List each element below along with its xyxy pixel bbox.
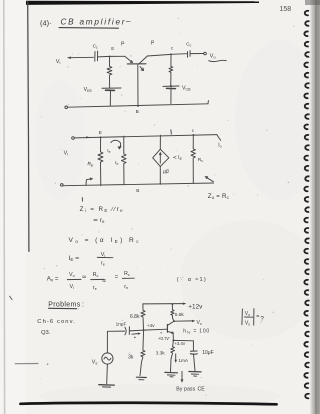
- resistor 5.6k (collector): [171, 304, 174, 321]
- transistor Q2 collector diagonal: [168, 321, 175, 325]
- svg-text:3.3k: 3.3k: [156, 351, 166, 356]
- svg-text:?: ?: [260, 315, 264, 322]
- ground rail left terminal circle: [65, 106, 68, 109]
- arrowhead on top rail: [86, 136, 89, 138]
- svg-text:1nμF: 1nμF: [116, 322, 127, 327]
- input capacitor curved plate: [125, 327, 126, 335]
- tick above Zi text: [81, 198, 83, 202]
- ground rail circuit 1: [68, 104, 208, 107]
- wire node E to emitter: [110, 55, 125, 57]
- svg-text:6.8k: 6.8k: [130, 314, 140, 320]
- battery VCB short plate: [167, 87, 176, 89]
- svg-text:(∵ α ≈1): (∵ α ≈1): [177, 277, 206, 283]
- svg-text:1mA: 1mA: [178, 358, 189, 363]
- Zi arrow: [86, 179, 91, 186]
- svg-text:μβ: μβ: [162, 169, 169, 175]
- svg-text:Q3.: Q3.: [41, 330, 51, 336]
- controlled source inner up arrow: [159, 154, 161, 164]
- svg-text:+3.4v: +3.4v: [174, 341, 186, 346]
- svg-text:≃: ≃: [82, 274, 87, 280]
- emitter node dot: [172, 339, 174, 341]
- source wire to ground: [106, 364, 109, 384]
- controlled source diamond: [153, 149, 169, 166]
- svg-text:+12v: +12v: [188, 304, 203, 311]
- svg-text:E: E: [111, 46, 114, 51]
- supply rail with arrowhead: [143, 303, 183, 305]
- transistor Q1 collector diagonal: [139, 56, 147, 64]
- ground (3k): [136, 376, 146, 378]
- equation Av = Vo/Vi = Rc/re a = Rc/re: [47, 271, 130, 291]
- svg-text:Vi: Vi: [56, 59, 61, 65]
- battery VEE long plate: [102, 87, 121, 89]
- Zo arrow: [206, 177, 213, 182]
- svg-text:IE =: IE =: [69, 255, 80, 262]
- svg-text:CE: CE: [198, 387, 206, 393]
- bypass capacitor bottom plate: [190, 353, 197, 355]
- wire node c to capacitor: [171, 53, 187, 56]
- node E dot: [109, 56, 111, 58]
- output terminal circle: [204, 52, 207, 55]
- top rail E: [74, 135, 217, 138]
- svg-text:+4v: +4v: [147, 323, 155, 329]
- paper speckle: [39, 18, 294, 396]
- title "(4). CB amplifier -": [40, 17, 131, 28]
- svg-text:E: E: [99, 130, 102, 136]
- svg-text:P: P: [151, 41, 155, 47]
- battery VEE short plate: [106, 89, 115, 91]
- base wire to transistor: [144, 328, 168, 331]
- battery VCB junction blob: [170, 85, 172, 87]
- bottom rail B: [63, 183, 213, 186]
- Vo underline flourish: [209, 60, 227, 61]
- spiral binding hooks: [304, 11, 309, 399]
- emitter wire to bypass capacitor: [173, 339, 193, 341]
- left margin rule: [28, 2, 29, 251]
- stray margin dash: [15, 363, 38, 365]
- collector node dot: [173, 320, 175, 322]
- bottom rail left terminal circle: [61, 184, 64, 187]
- ground rail right tick: [207, 101, 209, 104]
- transistor Q1 arrow mark under bar: [140, 67, 144, 71]
- curved arrow Ie: [111, 140, 121, 148]
- top page-edge black bar: [26, 1, 259, 5]
- controlled source stem top: [159, 135, 161, 149]
- svg-text:Av =: Av =: [47, 276, 59, 283]
- input wire with left arrowhead: [71, 56, 94, 58]
- svg-text:10μF: 10μF: [202, 350, 214, 356]
- current arrow 1mA: [175, 354, 177, 360]
- resistor 3k (lower bias): [140, 330, 145, 376]
- svg-text:158: 158: [280, 6, 292, 13]
- svg-text:–: –: [126, 17, 131, 26]
- stray tick above rail: [170, 130, 172, 134]
- node E dot: [100, 136, 102, 138]
- ground (source): [99, 384, 115, 386]
- svg-text:(4)·: (4)·: [40, 18, 52, 27]
- svg-text:+: +: [160, 330, 163, 335]
- bypass capacitor wire to ground: [194, 354, 196, 371]
- svg-text:Zo = Rc: Zo = Rc: [208, 193, 230, 200]
- svg-text:B: B: [136, 109, 139, 115]
- svg-text:5.6k: 5.6k: [175, 312, 185, 317]
- junction dot on rail: [172, 303, 174, 305]
- battery VCB long plate: [163, 85, 179, 87]
- svg-text:−: −: [168, 336, 171, 341]
- bypass capacitor stem: [192, 341, 194, 351]
- down arrow between grounds: [181, 371, 183, 380]
- stray margin tick: [10, 296, 12, 299]
- stray dot: [134, 337, 136, 339]
- input capacitor straight plate: [128, 327, 130, 335]
- node c dot: [170, 53, 172, 55]
- wire capacitor to base node: [129, 329, 143, 332]
- resistor Rc: [191, 135, 195, 183]
- svg-text::: :: [82, 301, 84, 308]
- svg-text:Vs: Vs: [92, 360, 98, 366]
- wire collector to node c: [147, 54, 171, 56]
- input terminal circle: [72, 137, 75, 140]
- node dot at source stem: [160, 183, 162, 185]
- wire cap to node E: [98, 55, 110, 58]
- wire Vs to capacitor: [107, 331, 124, 353]
- resistor re: [122, 136, 127, 185]
- svg-text:3k: 3k: [128, 355, 134, 361]
- ground (bypass): [189, 371, 201, 373]
- source Vs sine: [104, 357, 111, 360]
- node c dot: [193, 134, 195, 136]
- right page-edge gray strip: [310, 0, 320, 414]
- transistor Q2 emitter diagonal with arrow: [168, 332, 173, 333]
- transistor Q2 base bar: [166, 325, 168, 333]
- svg-text:B: B: [136, 188, 139, 194]
- svg-text:P: P: [121, 42, 125, 48]
- bypass capacitor top plate: [191, 350, 198, 352]
- transistor Q1 base bar: [127, 63, 146, 65]
- svg-text:=: =: [256, 314, 259, 320]
- svg-text:By pass: By pass: [176, 386, 195, 392]
- controlled source stem bottom: [159, 166, 161, 184]
- transistor Q1 emitter diagonal with arrow: [125, 56, 132, 62]
- resistor 3.3k (emitter): [171, 340, 175, 369]
- capacitor Cc (output): [187, 52, 189, 58]
- Io arrow at rail end: [217, 135, 221, 140]
- heading underline: [49, 307, 77, 309]
- svg-text:≃ re: ≃ re: [93, 217, 105, 224]
- node B dot: [137, 105, 139, 107]
- wire cap to output terminal: [190, 53, 204, 55]
- resistor RE: [98, 137, 103, 185]
- signal arrow under wire: [132, 333, 138, 336]
- gain question |Vo/Vs| = ?: [241, 309, 244, 325]
- capacitor Cc (input): [94, 52, 96, 62]
- ground (emitter): [170, 369, 172, 372]
- collector wire to output with arrowhead: [174, 320, 192, 322]
- base node dot: [143, 329, 145, 331]
- far-left faint page line: [3, 0, 6, 414]
- svg-text:Vo: Vo: [210, 54, 217, 60]
- resistor 6.8k (upper bias): [141, 304, 145, 330]
- source Vs circle: [102, 353, 113, 364]
- wire battery VCB to ground rail: [170, 89, 172, 104]
- bottom page-edge black bar: [21, 403, 277, 405]
- base wire down to rail: [137, 64, 139, 106]
- resistor RC1 below node c: [169, 54, 173, 86]
- svg-text:Ch-6 conv.: Ch-6 conv.: [37, 319, 75, 325]
- resistor RE1 below node E: [107, 57, 112, 88]
- svg-text:Problems: Problems: [48, 301, 80, 308]
- emitter wire down: [172, 333, 174, 340]
- wire battery VEE to ground rail: [109, 90, 111, 105]
